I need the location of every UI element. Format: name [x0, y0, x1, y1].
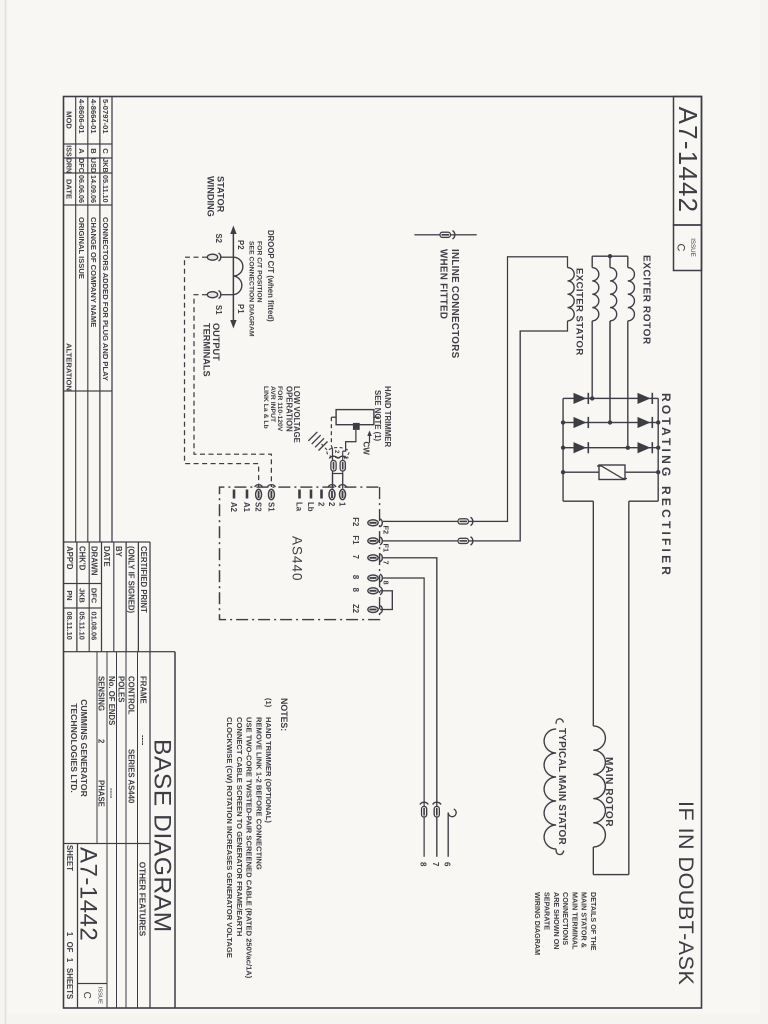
trimmer open stub [374, 416, 379, 418]
earth / frame symbol [319, 442, 328, 451]
junction top rail x422.5 [656, 420, 660, 424]
svg-text:USD: USD [89, 158, 98, 173]
svg-text:CHANGE OF COMPANY NAME: CHANGE OF COMPANY NAME [89, 217, 98, 327]
lead 7 from AVR terminal 7 [383, 558, 437, 857]
svg-text:JKB: JKB [77, 588, 86, 603]
svg-text:Z2: Z2 [351, 604, 360, 614]
svg-text:OUTPUT: OUTPUT [211, 323, 221, 361]
svg-text:ALTERATION: ALTERATION [65, 343, 74, 391]
drawing number box A7-1442 top-left [674, 97, 702, 226]
svg-text:(1): (1) [264, 698, 273, 708]
svg-text:08.11.10: 08.11.10 [65, 612, 74, 640]
svg-text:STATOR: STATOR [216, 176, 226, 213]
svg-text:A2: A2 [229, 502, 238, 513]
svg-text:MAIN ROTOR: MAIN ROTOR [603, 757, 614, 827]
svg-text:ROTATING RECTIFIER: ROTATING RECTIFIER [659, 393, 673, 578]
svg-text:CONTROL: CONTROL [127, 676, 136, 715]
svg-text:NOTES:: NOTES: [279, 698, 289, 731]
svg-text:7: 7 [382, 561, 391, 565]
terminal Lb [310, 490, 313, 499]
svg-text:BY: BY [114, 546, 123, 558]
wire: exciter stator left end to AVR F2 [383, 257, 568, 522]
dashed S1 wire to AVR [194, 295, 271, 487]
title block BASE DIAGRAM [174, 652, 176, 1008]
junction bottom rail x447.7 [561, 446, 565, 450]
svg-text:A1: A1 [242, 502, 251, 513]
svg-text:F2: F2 [351, 517, 360, 527]
svg-text:TECHNOLOGIES LTD.: TECHNOLOGIES LTD. [69, 703, 79, 793]
svg-text:CONNECTORS ADDED FOR PLUG AND: CONNECTORS ADDED FOR PLUG AND PLAY [101, 217, 110, 381]
svg-text:CONNECTIONS: CONNECTIONS [561, 892, 570, 945]
svg-text:No. OF ENDS: No. OF ENDS [107, 676, 116, 725]
svg-text:MOD: MOD [65, 111, 74, 129]
wire rotor phase 3 to rectifier [591, 321, 593, 399]
svg-text:SEE CONNECTION DIAGRAM: SEE CONNECTION DIAGRAM [247, 241, 254, 337]
svg-text:APP'D: APP'D [65, 546, 74, 570]
terminal 8 [380, 574, 382, 582]
svg-text:TERMINALS: TERMINALS [202, 323, 212, 377]
svg-text:JKB: JKB [101, 158, 110, 172]
svg-text:EXCITER STATOR: EXCITER STATOR [574, 268, 585, 356]
svg-text:A: A [77, 148, 86, 154]
inline connector lead 7 [433, 802, 441, 804]
svg-text:Lb: Lb [306, 502, 315, 512]
svg-text:5-0797-01: 5-0797-01 [101, 99, 110, 134]
svg-text:6: 6 [443, 862, 452, 867]
svg-text:DRAWN: DRAWN [90, 546, 99, 576]
svg-text:AVR INPUT: AVR INPUT [269, 386, 276, 423]
hand trimmer potentiometer [336, 410, 374, 425]
svg-text:4-8664-01: 4-8664-01 [89, 99, 98, 134]
wire rotor coil 3 lead [591, 256, 593, 267]
svg-text:FRAME: FRAME [138, 676, 147, 704]
svg-text:HAND TRIMMER: HAND TRIMMER [383, 386, 392, 447]
wire into terminal 2 [331, 446, 332, 489]
svg-text:A7-1442: A7-1442 [75, 847, 102, 941]
svg-text:7: 7 [351, 555, 360, 559]
wiper wire [343, 430, 356, 451]
svg-text:TYPICAL MAIN STATOR: TYPICAL MAIN STATOR [556, 728, 567, 846]
svg-text:----: ---- [107, 788, 116, 799]
svg-text:La: La [295, 502, 304, 512]
terminal La [298, 490, 301, 499]
svg-text:14.09.06: 14.09.06 [89, 175, 98, 203]
svg-text:1: 1 [65, 932, 74, 937]
wire rotor coil 1 lead [627, 256, 629, 267]
droop CT primary lead with arrows [232, 232, 234, 322]
junction exciter rotor bus [608, 254, 612, 258]
inline connector wire 2 [329, 456, 337, 458]
svg-text:CW: CW [362, 442, 371, 456]
svg-text:FOR 110-120V: FOR 110-120V [276, 386, 283, 432]
svg-text:DRN: DRN [65, 158, 73, 173]
svg-text:DFC: DFC [77, 158, 86, 173]
svg-text:AS440: AS440 [290, 536, 305, 582]
svg-text:2: 2 [317, 502, 326, 507]
typical main stator coil [556, 719, 563, 724]
svg-text:CONNECT CABLE SCREEN TO GENERA: CONNECT CABLE SCREEN TO GENERATOR FRAME/… [235, 717, 244, 936]
svg-text:06.06.06: 06.06.06 [77, 175, 86, 203]
svg-text:ORIGINAL ISSUE: ORIGINAL ISSUE [77, 217, 86, 279]
terminal 1 [339, 485, 347, 487]
svg-text:INLINE CONNECTORS: INLINE CONNECTORS [449, 249, 460, 359]
jumper 8 to Z2 [380, 591, 392, 610]
svg-text:CERTIFIED PRINT: CERTIFIED PRINT [139, 546, 148, 613]
lead 8 from AVR terminal 8 [383, 578, 424, 857]
inline connectors legend [414, 234, 476, 236]
svg-text:WHEN FITTED: WHEN FITTED [438, 249, 449, 319]
svg-text:BASE DIAGRAM: BASE DIAGRAM [149, 739, 176, 933]
svg-text:USE TWO-CORE TWISTED-PAIR SCRE: USE TWO-CORE TWISTED-PAIR SCREENED CABLE… [245, 717, 254, 979]
inline connector wire 1 [339, 456, 347, 458]
svg-text:OPERATION: OPERATION [285, 386, 294, 432]
main rotor top leg [628, 501, 630, 874]
svg-text:F2: F2 [382, 526, 391, 535]
wire rotor coil 2 lead [609, 256, 611, 267]
svg-text:ISSUE: ISSUE [689, 238, 696, 257]
svg-text:7: 7 [431, 862, 440, 867]
svg-text:DATE: DATE [102, 546, 111, 567]
junction phase2 [608, 420, 612, 424]
border frame [64, 97, 702, 1009]
svg-text:MAIN STATOR &: MAIN STATOR & [580, 892, 589, 948]
svg-text:2: 2 [327, 502, 336, 507]
svg-text:05.11.10: 05.11.10 [101, 175, 110, 203]
svg-text:SERIES AS440: SERIES AS440 [127, 749, 136, 804]
trimmer wiper [353, 423, 360, 430]
svg-text:SHEET: SHEET [65, 845, 74, 871]
terminal 8 [380, 587, 382, 595]
wire: exciter stator right end to AVR F1 [383, 321, 568, 541]
junction top rail x472.2 [656, 470, 660, 474]
main rotor coil [593, 726, 605, 847]
svg-text:P1: P1 [236, 304, 245, 314]
diode D1 (upper row) [638, 393, 651, 404]
svg-text:(ONLY IF SIGNED): (ONLY IF SIGNED) [127, 546, 136, 614]
diode D2 (upper row) [638, 417, 651, 428]
svg-text:ISS: ISS [65, 145, 73, 157]
svg-text:S2: S2 [254, 502, 263, 512]
wire rotor phase 2 to rectifier [609, 321, 611, 423]
svg-text:C: C [81, 992, 92, 999]
junction bottom rail x472.2 [561, 470, 565, 474]
svg-text:POLES: POLES [117, 676, 126, 702]
svg-text:FOR C/T POSITION: FOR C/T POSITION [256, 241, 263, 303]
diode D5 (lower row) [574, 417, 587, 428]
svg-text:05.11.10: 05.11.10 [77, 612, 86, 640]
svg-text:F1: F1 [382, 544, 391, 553]
exciter rotor coil 1 [628, 268, 635, 321]
inline connector lead 8 [420, 802, 428, 804]
svg-text:SHEETS: SHEETS [65, 968, 74, 999]
svg-text:B: B [89, 148, 98, 154]
svg-text:P2: P2 [236, 240, 245, 250]
wire rectifier column 1 [563, 397, 658, 399]
svg-text:WIRING DIAGRAM: WIRING DIAGRAM [533, 892, 542, 955]
svg-text:F1: F1 [351, 535, 360, 545]
terminal Z2 [380, 606, 382, 614]
inline connector on F2 wire [471, 517, 473, 525]
lead 6 (stub with curl) [448, 809, 456, 817]
svg-text:S1: S1 [266, 502, 275, 512]
exciter rotor coil 3 [592, 268, 599, 321]
svg-text:ISSUE: ISSUE [97, 987, 103, 1005]
svg-text:C: C [101, 148, 110, 154]
junction bottom rail x422.5 [561, 420, 565, 424]
svg-text:ARE SHOWN ON: ARE SHOWN ON [552, 892, 561, 950]
terminal S1 [267, 485, 275, 487]
svg-text:OTHER FEATURES: OTHER FEATURES [138, 862, 147, 937]
svg-text:1: 1 [338, 502, 347, 507]
svg-text:8: 8 [418, 862, 427, 867]
svg-text:MAIN TERMINAL: MAIN TERMINAL [570, 892, 579, 950]
exciter rotor coil 2 [610, 268, 617, 321]
rectifier bottom rail [562, 398, 564, 501]
svg-text:WINDING: WINDING [206, 176, 216, 217]
dashed wire from trimmer [330, 417, 332, 446]
wire rectifier column 2 [563, 422, 658, 424]
exciter stator coil [568, 268, 575, 321]
rectifier output legs [629, 500, 658, 502]
diode D3 (upper row) [638, 442, 651, 453]
link 1-2 [333, 474, 343, 489]
connector S1 lead [219, 291, 221, 299]
wire into terminal 1 [342, 451, 344, 488]
svg-text:DROOP C/T (when fitted): DROOP C/T (when fitted) [266, 230, 275, 322]
svg-text:OF: OF [65, 942, 74, 953]
svg-text:C: C [675, 244, 687, 252]
diode D6 (lower row) [574, 442, 587, 453]
junction phase1 [590, 396, 594, 400]
svg-text:DATE: DATE [65, 179, 74, 199]
terminal 2 [320, 490, 323, 499]
svg-text:A7-1442: A7-1442 [673, 107, 703, 214]
svg-text:DETAILS OF THE: DETAILS OF THE [589, 892, 598, 951]
certification block [149, 542, 151, 652]
connector S2 lead [219, 253, 221, 261]
svg-text:IF IN DOUBT-ASK: IF IN DOUBT-ASK [674, 801, 698, 985]
svg-text:SEE NOTE (1): SEE NOTE (1) [373, 390, 382, 442]
wire rotor phase 1 to rectifier [627, 321, 629, 448]
terminal A2 [233, 490, 236, 499]
junction phase3 [626, 446, 630, 450]
dashed S2 wire to AVR [185, 257, 259, 487]
svg-text:CUMMINS GENERATOR: CUMMINS GENERATOR [79, 699, 89, 797]
terminal 2 [328, 485, 336, 487]
svg-text:4-8606-01: 4-8606-01 [77, 99, 86, 134]
terminal 7 [380, 554, 382, 562]
svg-text:8: 8 [351, 575, 360, 580]
inline connector on F1 wire [471, 537, 473, 545]
svg-text:1: 1 [65, 958, 74, 963]
terminal F2 [380, 519, 382, 527]
svg-text:CLOCKWISE (CW) ROTATION INCREA: CLOCKWISE (CW) ROTATION INCREASES GENERA… [225, 717, 234, 958]
svg-text:PHASE: PHASE [96, 780, 105, 807]
svg-text:S2: S2 [214, 233, 223, 243]
cable screen [327, 448, 349, 458]
droop CT secondary [233, 257, 242, 295]
AVR AS440 box (dash-dot) [220, 487, 380, 619]
terminal F1 [380, 537, 382, 545]
terminal A1 [246, 490, 249, 499]
terminal S2 [255, 485, 263, 487]
svg-text:2: 2 [96, 739, 105, 744]
diode D4 (lower row) [574, 393, 587, 404]
varistor MV1 (surge suppressor) [625, 471, 658, 473]
svg-text:LINK La & Lb: LINK La & Lb [262, 386, 269, 429]
svg-text:01.08.06: 01.08.06 [90, 612, 99, 641]
svg-text:DFC: DFC [90, 588, 99, 604]
svg-text:SENSING: SENSING [96, 676, 105, 711]
trimmer lower stub [331, 416, 336, 418]
rectifier top rail [657, 398, 659, 501]
revision table [111, 97, 113, 543]
svg-text:8: 8 [382, 581, 391, 585]
svg-text:----: ---- [138, 735, 147, 746]
svg-text:HAND TRIMMER (OPTIONAL): HAND TRIMMER (OPTIONAL) [264, 717, 273, 823]
svg-text:REMOVE LINK 1-2 BEFORE CONNECT: REMOVE LINK 1-2 BEFORE CONNECTING [254, 717, 263, 870]
CW arrow [369, 434, 371, 443]
exciter rotor bus [592, 255, 628, 257]
svg-text:CHK'D: CHK'D [77, 546, 86, 571]
svg-text:S1: S1 [214, 305, 223, 315]
svg-text:SEPARATE: SEPARATE [543, 892, 552, 930]
svg-text:EXCITER ROTOR: EXCITER ROTOR [641, 255, 652, 345]
svg-text:PN: PN [65, 590, 74, 600]
junction top rail x447.7 [656, 446, 660, 450]
wire rectifier column 3 [563, 447, 658, 449]
main rotor bottom leg [592, 501, 594, 726]
svg-text:8: 8 [351, 588, 360, 593]
issue box C [674, 225, 702, 271]
